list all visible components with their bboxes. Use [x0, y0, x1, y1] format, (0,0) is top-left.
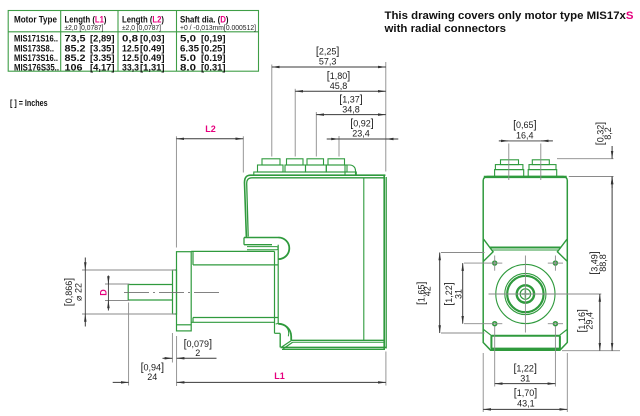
svg-text:88,8: 88,8	[598, 254, 608, 272]
svg-text:45,8: 45,8	[330, 81, 348, 91]
svg-text:Motor Type: Motor Type	[14, 15, 57, 25]
svg-text:MIS176S35..: MIS176S35..	[14, 62, 59, 72]
svg-text:0,8: 0,8	[122, 34, 138, 44]
svg-text:L1: L1	[274, 371, 285, 381]
svg-text:[1,70]: [1,70]	[514, 387, 537, 399]
svg-text:D: D	[99, 289, 109, 296]
svg-text:31: 31	[520, 374, 530, 384]
svg-text:[0.49]: [0.49]	[140, 43, 165, 53]
svg-text:[0,19]: [0,19]	[201, 34, 226, 44]
svg-text:42: 42	[422, 286, 432, 296]
svg-text:5,0: 5,0	[180, 34, 196, 44]
svg-text:29,4: 29,4	[584, 312, 594, 330]
svg-text:[1,31]: [1,31]	[140, 62, 165, 72]
svg-text:8,2: 8,2	[603, 127, 613, 140]
svg-text:57,3: 57,3	[319, 56, 337, 66]
svg-text:with radial connectors: with radial connectors	[383, 23, 506, 35]
svg-text:This drawing covers only motor: This drawing covers only motor type MIS1…	[385, 10, 634, 22]
svg-text:MIS173S8..: MIS173S8..	[14, 43, 54, 53]
svg-text:[4,17]: [4,17]	[90, 62, 115, 72]
svg-text:±2,0 [0,0787]: ±2,0 [0,0787]	[65, 25, 104, 32]
svg-text:[0.25]: [0.25]	[201, 43, 226, 53]
svg-text:8.0: 8.0	[180, 62, 196, 72]
svg-text:L2: L2	[205, 124, 216, 134]
svg-text:[0.31]: [0.31]	[201, 62, 226, 72]
svg-text:[ ] = Inches: [ ] = Inches	[10, 98, 48, 108]
svg-text:[2,89]: [2,89]	[90, 34, 115, 44]
svg-text:43,1: 43,1	[517, 399, 535, 409]
svg-text:31: 31	[454, 289, 464, 299]
svg-text:34,8: 34,8	[342, 104, 360, 114]
svg-text:Length (L1): Length (L1)	[65, 15, 107, 25]
svg-text:106: 106	[65, 62, 83, 72]
svg-text:24: 24	[147, 372, 157, 382]
svg-text:⌀ 22: ⌀ 22	[74, 283, 84, 301]
svg-text:23,4: 23,4	[352, 129, 370, 139]
svg-text:±2,0 [0,0787]: ±2,0 [0,0787]	[122, 25, 161, 32]
svg-text:+0 / -0,013mm[0.000512]: +0 / -0,013mm[0.000512]	[180, 25, 256, 32]
svg-text:33,3: 33,3	[122, 62, 139, 72]
svg-text:85.2: 85.2	[65, 43, 86, 53]
svg-text:12.5: 12.5	[122, 43, 139, 53]
svg-text:Shaft dia. (D): Shaft dia. (D)	[180, 15, 229, 25]
svg-text:6.35: 6.35	[180, 43, 199, 53]
svg-text:73,5: 73,5	[65, 34, 86, 44]
svg-text:[3.35]: [3.35]	[90, 43, 115, 53]
svg-text:2: 2	[195, 348, 200, 358]
svg-text:16,4: 16,4	[516, 130, 534, 140]
svg-text:[0,03]: [0,03]	[140, 34, 165, 44]
svg-text:MIS171S16..: MIS171S16..	[14, 34, 58, 44]
svg-text:Length (L2): Length (L2)	[122, 15, 164, 25]
